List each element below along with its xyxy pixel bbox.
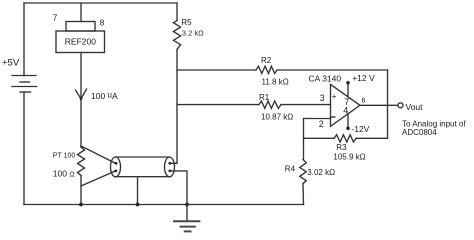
svg-text:4: 4 [343,105,348,115]
svg-text:2: 2 [319,119,324,129]
junction dot PT100 bottom [79,203,83,207]
cable right top pin [168,162,171,165]
svg-text:6: 6 [362,97,366,104]
label -12V [351,124,369,134]
label R3 [336,143,347,152]
wire R2 branch [177,69,256,71]
wire R2 to feedback corner [277,69,388,71]
resistor R1 [259,101,281,108]
wire R1 branch [177,104,259,106]
label To Analog input of [402,119,466,128]
cable left bottom pin [114,170,117,173]
ground symbol [173,205,200,232]
svg-text:105.9 kΩ: 105.9 kΩ [333,153,365,162]
wire pin 2 [304,118,331,120]
op-amp U2 CA 3140 [331,84,361,126]
label 10.87 kohm [261,113,293,122]
wire PT100 bottom to rail [80,176,82,205]
svg-text:11.8 kΩ: 11.8 kΩ [262,77,289,86]
svg-text:+: + [332,92,337,101]
resistor R2 [256,66,277,73]
label 100 ohm [53,168,75,178]
resistor PT100 (RTD) [78,147,85,176]
svg-text:7: 7 [53,12,58,22]
wire R1 to op-amp pin 3 [281,104,331,106]
wire feedback vertical [387,70,389,138]
svg-text:-12V: -12V [351,124,369,134]
current arrow 100uA [76,89,87,100]
wire R3 right segment [356,137,387,139]
cable left top pin [115,162,118,165]
wire output [360,104,398,106]
label 11.8 kohm [262,77,289,86]
wire inverting node vertical [303,119,305,160]
wire top rail [24,2,177,4]
resistor R3 [334,135,356,142]
wire top rail right end to R5 [176,3,178,21]
wire diagonal PT100 bottom to cable pin [81,171,116,186]
svg-text:+12 V: +12 V [352,73,375,83]
pin 7 stub +12V [346,81,350,96]
wire diagonal PT100 top to cable pin [81,146,116,163]
label 3.2 kohm [182,29,204,38]
pin 2 label [319,119,324,129]
label R1 [259,93,270,102]
pin 4 stub -12V [346,114,350,131]
terminal Vout [398,103,403,108]
label PT 100 [53,153,76,160]
svg-text:+5V: +5V [2,58,20,69]
wire REF200 top drop [80,3,82,22]
label Vout [406,102,424,112]
svg-text:Vout: Vout [406,102,424,112]
svg-text:R3: R3 [336,143,347,152]
svg-text:3: 3 [320,93,325,103]
resistor R4 [300,160,307,184]
pin 3 label [320,93,325,103]
label +5V [2,58,20,69]
wire R3 left segment [304,137,335,139]
resistor R5 [173,21,180,50]
wire cable right bottom pin down [170,171,187,205]
svg-text:CA 3140: CA 3140 [309,73,342,83]
svg-text:8: 8 [100,17,105,27]
pin 4 label opamp [343,105,348,115]
svg-text:R2: R2 [261,56,272,65]
wire R4 to bottom rail [302,184,305,205]
svg-text:3.02 kΩ: 3.02 kΩ [307,168,335,177]
shielded cable cylinder [111,157,175,177]
pin 8 label REF200 [100,17,105,27]
pin 7 label opamp [344,97,349,107]
svg-text:R4: R4 [285,165,296,174]
pin 6 label [362,97,366,104]
svg-text:ADC0804: ADC0804 [402,128,437,137]
svg-text:PT 100: PT 100 [53,153,76,160]
label R5 [181,18,192,27]
svg-text:To Analog input of: To Analog input of [402,119,466,128]
label 3.02 kohm [307,168,335,177]
label ADC0804 [402,128,437,137]
cable right bottom pin [168,170,171,173]
junction dot ground [185,203,189,207]
svg-text:100 uA: 100 uA [91,91,118,102]
svg-text:REF200: REF200 [65,37,96,47]
svg-text:R5: R5 [181,18,192,27]
label 105.9 kohm [333,153,365,162]
REF200 U1 [56,22,105,53]
svg-text:R1: R1 [259,93,270,102]
label R2 [261,56,272,65]
label R4 [285,165,296,174]
wire bottom rail [24,204,304,206]
label +12 V [352,73,375,83]
wire battery to bottom rail [23,92,25,205]
pin 7 label REF200 [53,12,58,22]
wire left column to battery [23,3,25,76]
wire cable shield to ground rail [137,177,139,205]
battery +5V [12,76,37,93]
junction dot shield wire [136,203,140,207]
label CA 3140 [309,73,342,83]
svg-text:100 Ω: 100 Ω [53,168,75,178]
wire REF200 bottom to PT100 [80,53,82,148]
label 100 uA [91,91,118,102]
wire cable right top pin to node [170,50,177,164]
svg-text:10.87 kΩ: 10.87 kΩ [261,113,293,122]
svg-text:3.2 kΩ: 3.2 kΩ [182,29,204,38]
